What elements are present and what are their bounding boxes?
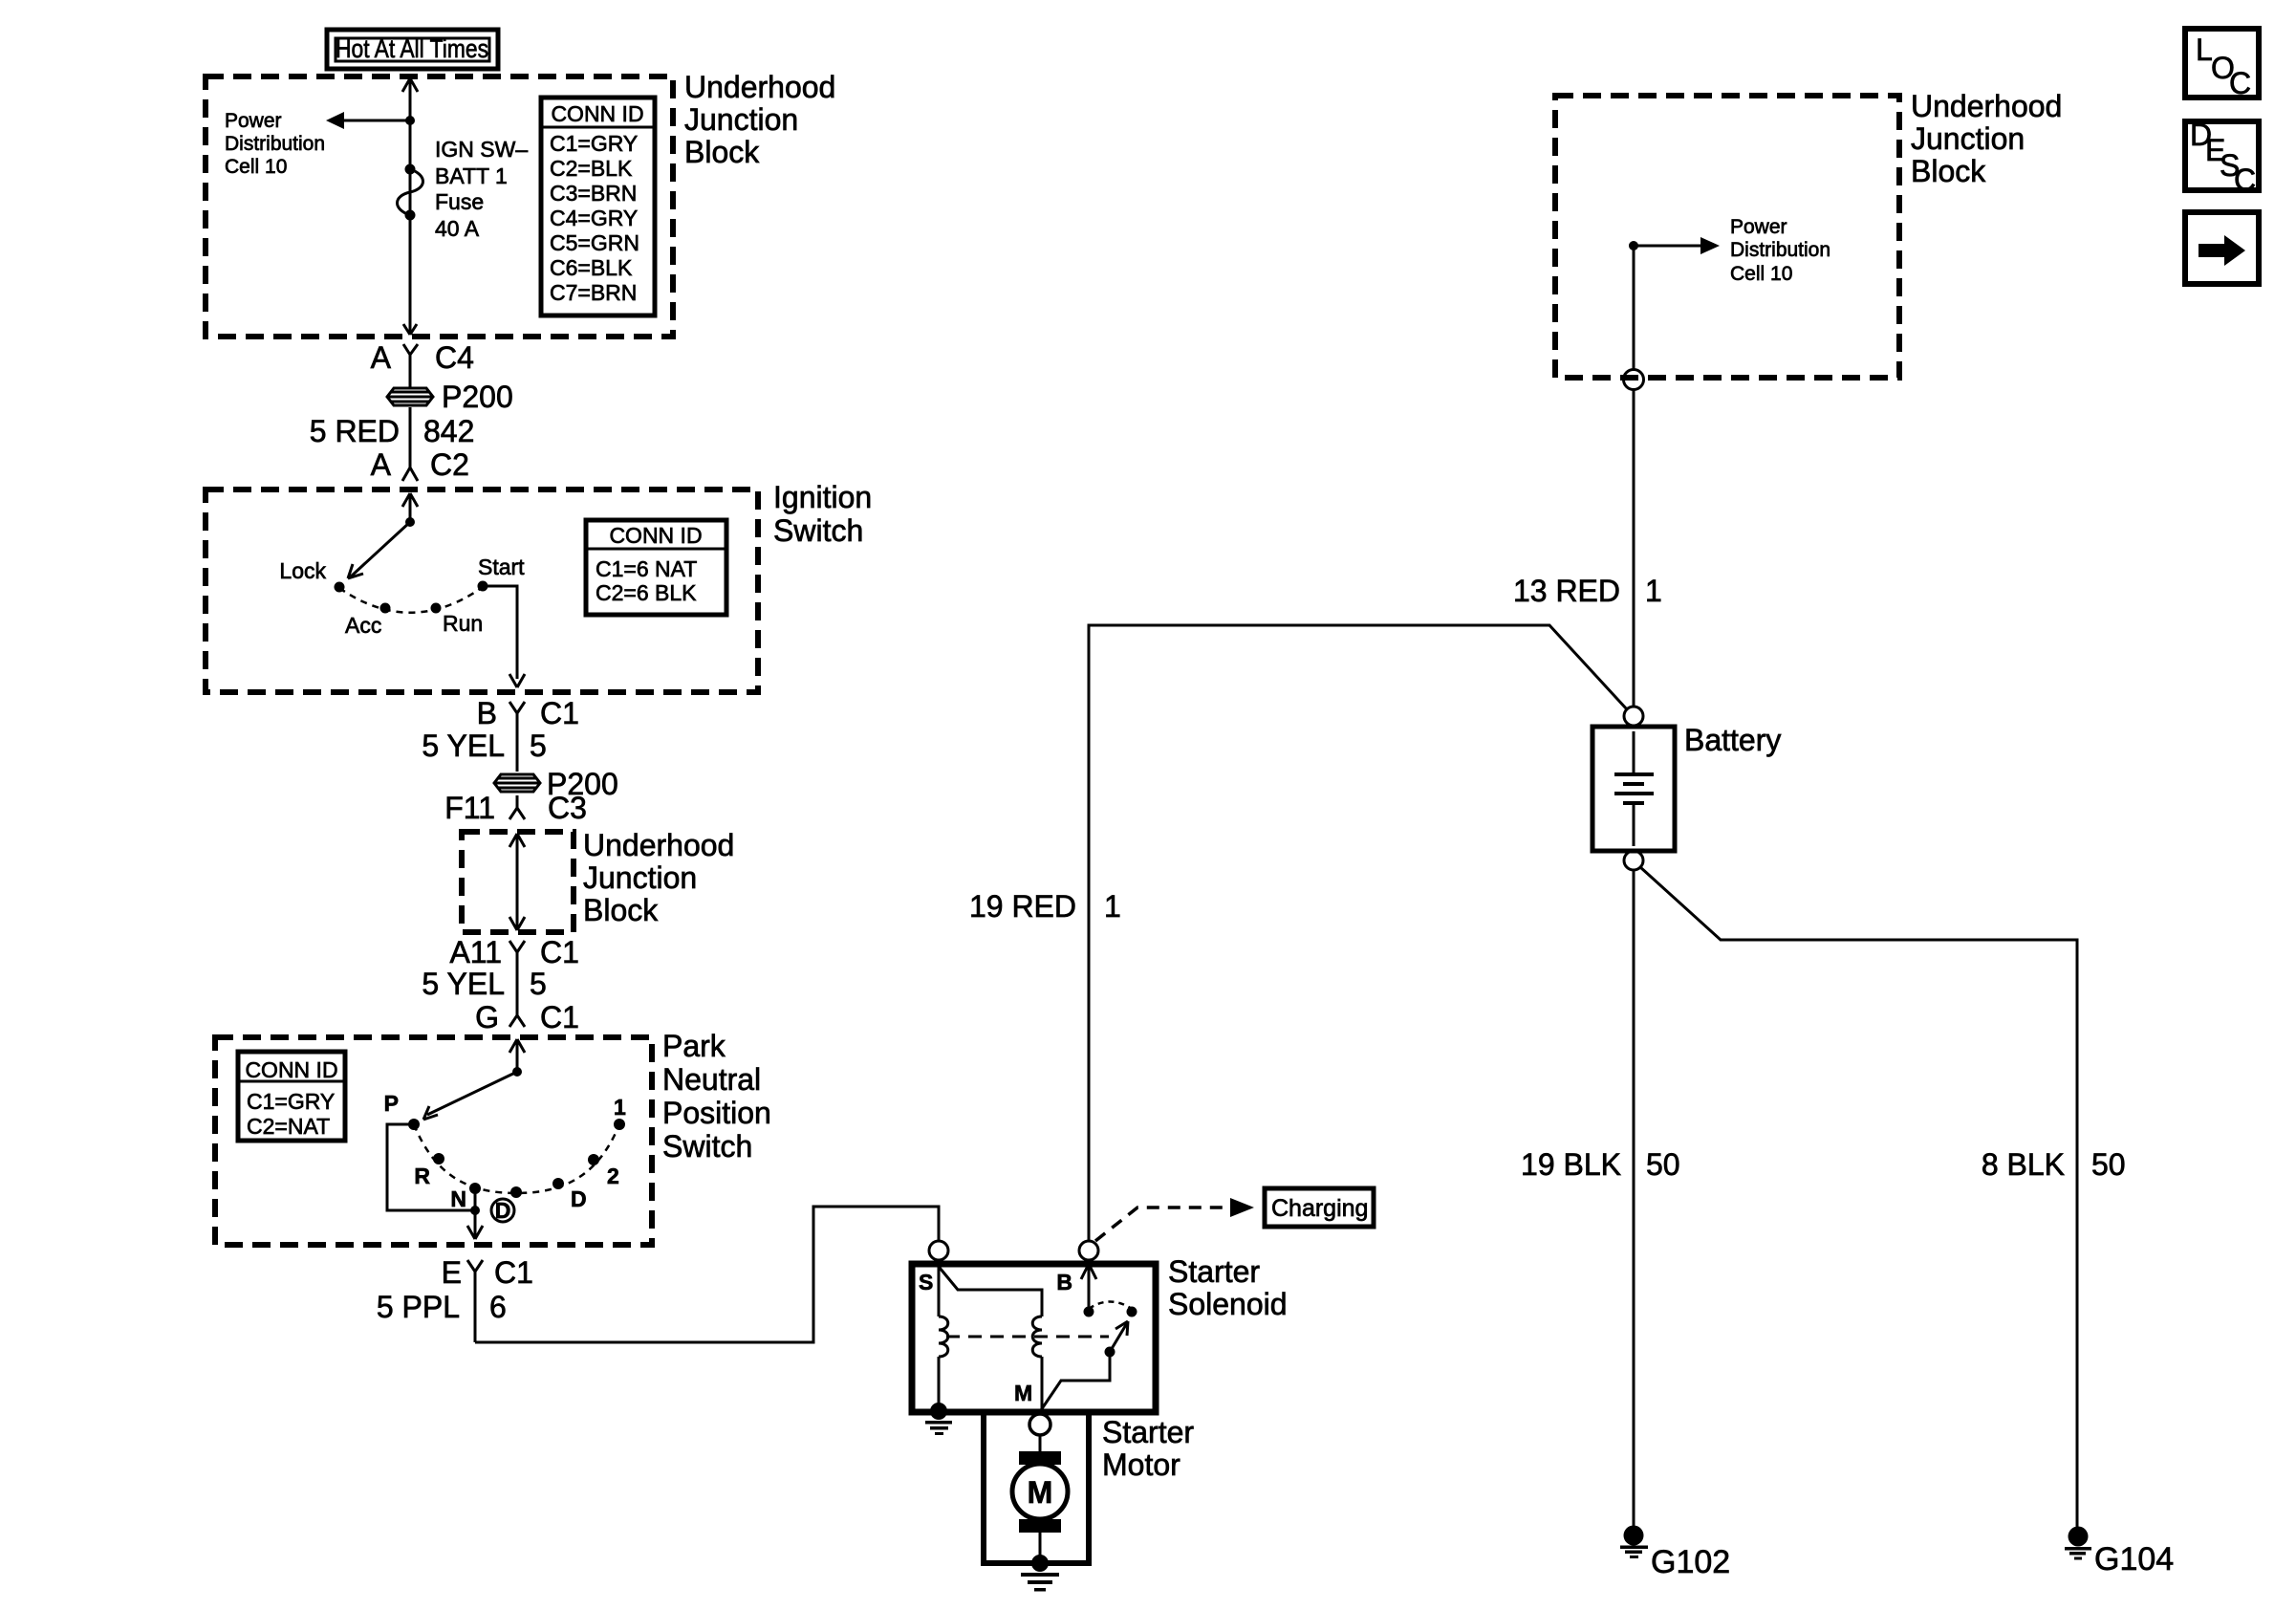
svg-text:5 YEL: 5 YEL [422,729,505,763]
svg-text:C1=6 NAT: C1=6 NAT [596,556,697,581]
svg-text:A: A [371,340,392,375]
svg-text:C3=BRN: C3=BRN [550,181,637,206]
svg-text:5: 5 [530,729,547,763]
svg-text:C: C [2234,163,2256,197]
svg-text:50: 50 [1646,1147,1680,1182]
svg-text:Park: Park [662,1029,726,1063]
svg-text:IGN SW–: IGN SW– [435,137,528,162]
svg-text:19 BLK: 19 BLK [1521,1147,1621,1182]
svg-text:Junction: Junction [583,860,697,895]
svg-text:Junction: Junction [1911,121,2025,156]
svg-text:C1: C1 [540,696,579,730]
svg-text:Start: Start [478,555,525,579]
svg-text:Charging: Charging [1271,1195,1368,1222]
svg-text:5: 5 [530,967,547,1001]
svg-text:R: R [414,1164,430,1188]
svg-text:C7=BRN: C7=BRN [550,280,637,305]
svg-text:C4=GRY: C4=GRY [550,206,638,230]
svg-text:Power: Power [1730,216,1787,238]
svg-text:C: C [2229,66,2251,100]
svg-text:Switch: Switch [773,513,863,548]
svg-text:Run: Run [443,611,483,636]
svg-text:G102: G102 [1651,1544,1730,1580]
svg-text:Cell 10: Cell 10 [225,156,287,178]
svg-text:C1=GRY: C1=GRY [247,1089,335,1114]
svg-text:1: 1 [614,1095,626,1120]
svg-text:C5=GRN: C5=GRN [550,230,639,255]
svg-text:CONN ID: CONN ID [245,1057,337,1082]
svg-text:1: 1 [1104,889,1121,924]
svg-text:Neutral: Neutral [662,1062,761,1097]
svg-text:C2: C2 [430,447,469,482]
svg-text:Distribution: Distribution [1730,239,1830,261]
svg-text:842: 842 [423,414,474,448]
svg-text:Block: Block [684,135,760,169]
svg-text:Position: Position [662,1096,771,1130]
svg-text:B: B [477,696,497,730]
svg-text:Underhood: Underhood [583,828,734,862]
svg-text:50: 50 [2091,1147,2126,1182]
svg-text:5 YEL: 5 YEL [422,967,505,1001]
svg-text:5 RED: 5 RED [310,414,400,448]
svg-text:CONN ID: CONN ID [551,101,643,126]
svg-text:5 PPL: 5 PPL [377,1290,460,1324]
svg-text:D: D [571,1186,587,1211]
svg-text:Ignition: Ignition [773,480,872,514]
svg-text:Motor: Motor [1102,1447,1180,1482]
svg-text:Lock: Lock [279,558,326,583]
svg-text:P200: P200 [442,380,513,414]
svg-text:BATT 1: BATT 1 [435,163,508,188]
svg-text:Starter: Starter [1168,1254,1260,1289]
svg-text:S: S [919,1270,933,1295]
svg-text:Hot At All Times: Hot At All Times [336,34,488,63]
svg-text:N: N [450,1186,466,1211]
svg-text:C2=BLK: C2=BLK [550,156,633,181]
svg-text:C2=NAT: C2=NAT [247,1114,330,1139]
svg-text:40 A: 40 A [435,216,480,241]
svg-text:Block: Block [1911,154,1986,188]
svg-text:Starter: Starter [1102,1415,1194,1449]
svg-text:13 RED: 13 RED [1513,574,1620,608]
svg-text:P: P [384,1091,399,1116]
svg-text:19 RED: 19 RED [969,889,1076,924]
svg-text:8 BLK: 8 BLK [1982,1147,2065,1182]
svg-text:M: M [1028,1475,1053,1510]
svg-text:Distribution: Distribution [225,133,325,155]
svg-text:G: G [475,1000,499,1034]
svg-text:Junction: Junction [684,102,798,137]
svg-text:Solenoid: Solenoid [1168,1287,1288,1321]
svg-text:C4: C4 [435,340,474,375]
svg-text:Acc: Acc [345,613,381,638]
svg-text:C1=GRY: C1=GRY [550,131,638,156]
svg-text:C2=6 BLK: C2=6 BLK [596,580,697,605]
svg-text:Battery: Battery [1684,723,1781,757]
svg-text:Power: Power [225,110,282,132]
svg-text:Underhood: Underhood [1911,89,2062,123]
svg-text:A11: A11 [449,935,502,969]
svg-text:C1: C1 [494,1255,533,1290]
svg-text:M: M [1014,1381,1032,1405]
svg-text:E: E [442,1255,462,1290]
svg-text:2: 2 [607,1164,619,1188]
svg-text:G104: G104 [2094,1541,2174,1577]
svg-text:Cell 10: Cell 10 [1730,263,1792,285]
svg-text:6: 6 [489,1290,507,1324]
svg-text:1: 1 [1645,574,1662,608]
svg-text:A: A [371,447,392,482]
svg-text:Underhood: Underhood [684,70,835,104]
svg-text:CONN ID: CONN ID [609,523,702,548]
svg-text:Block: Block [583,893,659,927]
svg-text:C1: C1 [540,1000,579,1034]
svg-text:B: B [1056,1270,1072,1295]
svg-text:C3: C3 [548,791,587,825]
svg-text:Switch: Switch [662,1129,752,1164]
svg-text:C1: C1 [540,935,579,969]
svg-text:F11: F11 [444,791,495,825]
svg-text:Fuse: Fuse [435,189,484,214]
svg-text:D: D [495,1198,511,1223]
svg-text:C6=BLK: C6=BLK [550,255,633,280]
